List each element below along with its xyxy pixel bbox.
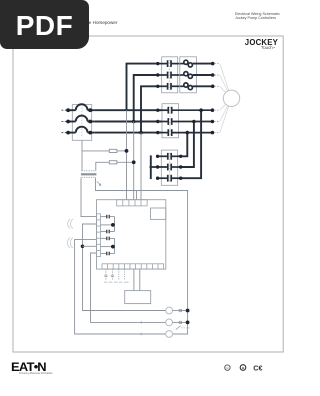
node fuse FU2 junction	[132, 160, 136, 164]
wire phase bus L2	[94, 121, 162, 123]
wire star drop phase C	[181, 110, 201, 178]
contactor 2M box	[162, 57, 178, 93]
wire riser to delta contactor phase A	[127, 64, 158, 111]
contactor 1M box	[162, 104, 179, 138]
PCB main board	[97, 200, 166, 269]
overload heater C	[184, 83, 213, 90]
star point bus bar	[150, 155, 152, 179]
wire left branch B	[91, 253, 166, 322]
motor terminal T4	[211, 73, 215, 77]
motor terminal T2	[211, 120, 215, 124]
node junction L3 riser	[139, 131, 143, 135]
wire drop into connector	[136, 191, 138, 200]
PCB relay contact group 2	[101, 237, 115, 256]
node junction row2	[186, 321, 190, 325]
node fuse FU1 junction	[125, 149, 129, 153]
drawing frame	[13, 36, 283, 352]
pressure switch pin 1	[179, 309, 181, 311]
contactor 2M contact B	[159, 72, 184, 79]
transformer T1	[81, 171, 96, 178]
PCB left terminal column	[97, 214, 101, 257]
motor terminal T3	[211, 131, 215, 135]
PCB top connector	[117, 200, 147, 206]
circuit breaker CB1 pole L3	[62, 127, 95, 133]
UL mark	[225, 365, 230, 370]
JOCKEY Touch logo	[245, 38, 278, 47]
control sense line L2	[133, 122, 135, 200]
certification marks	[220, 360, 270, 374]
star contactor S contact C	[157, 175, 180, 182]
wire riser to delta contactor phase B	[134, 75, 158, 122]
EATON logo	[11, 362, 46, 374]
pressure switch actuator link	[176, 326, 181, 330]
wire to operator panel a	[133, 269, 135, 291]
wire phase bus L1	[94, 109, 162, 111]
contactor 2M contact A	[159, 60, 184, 67]
circuit breaker CB1 box	[72, 105, 91, 141]
pressure switch lamp 3	[166, 331, 173, 338]
connector brace marks	[68, 219, 73, 248]
contactor 1M contact C	[159, 129, 212, 136]
control sense line L3	[140, 133, 142, 200]
cUL mark	[240, 365, 246, 371]
contactor 1M contact A	[159, 107, 212, 114]
svg-text:C€: C€	[253, 363, 262, 372]
contactor 2M contact C	[159, 83, 184, 90]
node junction L2 riser	[132, 120, 136, 124]
wire secondary left to terminal	[81, 178, 97, 217]
operator panel box	[125, 291, 151, 304]
circuit breaker CB1 pole L1	[62, 104, 95, 110]
motor terminal T6	[211, 62, 215, 66]
motor M circle	[223, 90, 239, 106]
transformer T1 adjust arrow	[97, 181, 101, 185]
star contactor S box	[161, 150, 177, 185]
motor terminal T1	[211, 108, 215, 112]
wire control common	[83, 224, 166, 311]
circuit breaker CB1 pole L2	[62, 116, 95, 122]
wire left branch A	[75, 239, 97, 334]
node control tap	[81, 245, 85, 249]
PDF badge	[0, 0, 89, 49]
wire star drop phase A	[181, 133, 188, 157]
wire row ticks	[140, 321, 142, 323]
header right: document subtitle	[235, 12, 280, 21]
wire tap to terminal row 5	[83, 245, 97, 247]
motor lead diagonals	[220, 64, 229, 133]
wire to operator panel b	[139, 269, 141, 291]
PCB relay contact group 1	[101, 215, 115, 234]
circuit breaker CB1 mechanical link (dashed)	[81, 108, 83, 137]
svg-text:u: u	[226, 366, 228, 370]
overload heater A	[184, 60, 213, 67]
wire bottom row 3	[75, 333, 166, 335]
fuse FU1	[82, 140, 109, 151]
wire phase bus L3	[94, 132, 162, 134]
overload relay OL box	[180, 57, 197, 93]
motor terminal T5	[211, 85, 215, 89]
title text partially hidden by badge	[89, 20, 118, 25]
PCB bottom terminal strip	[102, 264, 164, 269]
fuse FU2	[96, 162, 110, 170]
wire riser to delta contactor phase C	[141, 86, 158, 132]
field wiring dashed stubs	[106, 269, 125, 280]
PCB display connector	[151, 208, 166, 219]
wire secondary right loop	[96, 178, 188, 334]
control sense line L1	[126, 110, 128, 200]
wire fuse FU1 feed	[81, 151, 83, 171]
wire star drop phase B	[181, 122, 194, 168]
star contactor S contact B	[150, 164, 180, 171]
star contactor S contact A	[157, 153, 180, 160]
motor lead dashes	[214, 64, 220, 133]
overload heater B	[184, 72, 213, 79]
pressure switch lamp 2	[166, 319, 173, 326]
contactor 1M contact B	[159, 118, 212, 125]
field wiring micro labels	[104, 282, 129, 283]
pressure switch lamp 1	[166, 307, 173, 314]
node junction row1	[186, 309, 190, 313]
pressure switch pin 2	[179, 321, 181, 323]
